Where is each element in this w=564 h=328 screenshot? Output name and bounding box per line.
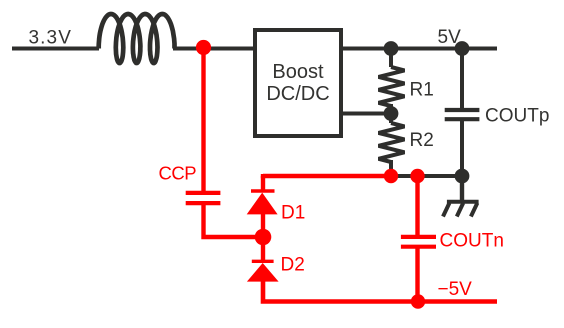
node: mid rail / COUTn junction (red) — [410, 169, 424, 183]
svg-text:D2: D2 — [281, 255, 305, 276]
node: switch node junction (red) — [196, 40, 211, 55]
wire: black mid rail from R2 bottom to ground node — [391, 174, 462, 178]
svg-text:D1: D1 — [281, 203, 305, 224]
svg-text:R1: R1 — [410, 80, 434, 101]
svg-text:COUTn: COUTn — [440, 231, 504, 252]
ground (chassis) — [443, 176, 479, 217]
svg-text:Boost: Boost — [272, 61, 324, 83]
wire: red mid rail from D1 corner to R2 bottom — [263, 174, 391, 176]
svg-text:−5V: −5V — [438, 279, 473, 300]
svg-text:CCP: CCP — [159, 163, 197, 184]
node: ground junction — [455, 169, 470, 184]
capacitor COUTn — [401, 237, 436, 247]
wire: R2 bottom lead to mid rail — [389, 160, 393, 176]
diode D2 — [247, 261, 279, 281]
wire: inductor to boost converter input — [173, 47, 253, 51]
wire: R2 top lead — [389, 114, 393, 124]
node: mid rail / R2 junction (red) — [384, 169, 398, 183]
inductor L (coil) — [99, 14, 175, 63]
svg-text:R2: R2 — [410, 130, 434, 151]
wire: R1 top lead — [389, 49, 393, 68]
wire: D2 anode down to -5V rail corner — [263, 280, 418, 302]
capacitor COUTp — [445, 110, 480, 119]
resistor R2 — [379, 123, 405, 162]
wire: 3.3V input rail — [12, 47, 99, 51]
svg-text:DC/DC: DC/DC — [266, 83, 329, 105]
node: feedback junction between R1 and R2 — [384, 106, 399, 121]
capacitor CCP — [186, 193, 221, 203]
wire: COUTp bottom lead to ground rail — [460, 120, 464, 176]
node: boost output / R1 top junction — [384, 41, 399, 56]
wire: D1 top lead from mid rail — [261, 176, 265, 192]
wire: CCP bottom to D1/D2 junction — [204, 204, 264, 237]
node: D1/D2 junction — [255, 229, 272, 246]
wire: D1 anode to junction — [261, 213, 265, 237]
diode D1 — [247, 191, 278, 214]
wire: COUTn bottom lead to -5V rail — [415, 246, 419, 302]
resistor R1 — [379, 67, 405, 106]
wire: COUTp top lead from 5V rail — [460, 49, 464, 110]
wire: COUTn top lead from mid rail — [415, 176, 419, 238]
wire: feedback from boost to R1/R2 divider — [343, 112, 391, 116]
label Boost DC/DC — [266, 61, 329, 105]
wire: boost output to 5V rail — [343, 47, 497, 51]
node: -5V / COUTn junction — [411, 294, 425, 308]
node: 5V output / COUTp junction — [455, 41, 470, 56]
wire: R1 bottom to R2 top — [389, 104, 393, 114]
svg-text:COUTp: COUTp — [485, 106, 549, 127]
svg-text:3.3V: 3.3V — [29, 27, 73, 48]
wire: red vertical from switch node down to CCP — [201, 48, 205, 192]
wire: junction to D2 cathode — [261, 237, 265, 262]
boost DC/DC converter block U1 — [255, 30, 341, 136]
wire: -5V output rail — [418, 299, 497, 304]
